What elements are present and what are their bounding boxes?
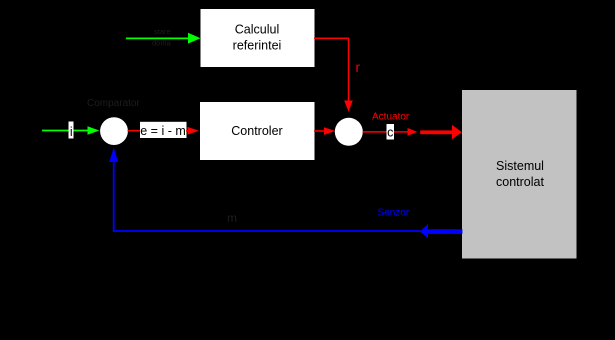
svg-text:stare: stare	[154, 27, 171, 36]
node label c	[387, 124, 395, 140]
block: Sistemul controlat	[462, 90, 577, 259]
faint label: setpoint source (two lines)	[152, 27, 172, 48]
comparator circle	[100, 117, 128, 145]
wire: red error line from comparator	[128, 130, 143, 132]
wire: green input arrow i into comparator	[42, 126, 99, 135]
svg-text:m: m	[227, 211, 237, 225]
svg-text:Comparator: Comparator	[87, 98, 140, 109]
svg-text:i: i	[70, 125, 73, 139]
node label i	[69, 122, 74, 139]
svg-text:c: c	[387, 125, 393, 139]
wire: red arrow from Controler to summing junction	[314, 127, 335, 135]
wire: green input arrow into Calculul referintei	[126, 33, 201, 44]
summing junction circle	[335, 118, 363, 146]
svg-text:referintei: referintei	[233, 39, 282, 53]
wire: small red arrow after c	[394, 128, 417, 136]
svg-text:e = i - m: e = i - m	[140, 124, 186, 138]
svg-text:Senzor: Senzor	[378, 208, 410, 219]
thick red actuator arrow into Sistemul controlat	[420, 125, 462, 139]
wire: red arrow into Controler	[186, 127, 199, 135]
svg-text:Sistemul: Sistemul	[496, 159, 544, 173]
svg-text:Actuator: Actuator	[372, 112, 410, 123]
svg-text:Controler: Controler	[231, 124, 282, 138]
wire: red r path from Calculul referintei to summing junction	[314, 38, 353, 112]
svg-text:Calculul: Calculul	[235, 23, 279, 37]
svg-text:dorita: dorita	[152, 39, 172, 48]
block: Calculul referintei	[201, 9, 315, 67]
thick blue sensor arrow out of Sistemul controlat	[420, 224, 463, 238]
svg-text:controlat: controlat	[496, 175, 544, 189]
svg-text:r: r	[356, 60, 361, 75]
block: Controler	[200, 102, 315, 160]
wire: red line from summing junction to c	[363, 131, 389, 133]
wire: blue feedback line to comparator	[109, 148, 420, 232]
node label e = i - m	[140, 122, 187, 138]
